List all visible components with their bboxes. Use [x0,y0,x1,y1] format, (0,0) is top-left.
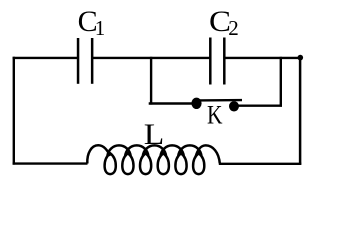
wire: top right segment (C2 to right corner) [224,57,301,59]
svg-text:K: K [207,101,223,130]
capacitor C1 [78,38,92,84]
inductor L coil: loop 6 [193,153,204,174]
inductor L coil: loop 2 [122,153,133,174]
inductor L coil: loop 5 [175,153,186,174]
switch K lever blade [197,99,242,102]
inductor L coil: loop 3 [140,153,151,174]
svg-text:1: 1 [95,16,106,40]
wire: switch left horizontal lead [149,102,196,104]
inductor L coil: loop 1 [105,153,116,174]
wire: bottom left segment (left side to L) [13,162,88,164]
wire: left vertical side [13,57,15,165]
capacitor C2 [210,38,224,85]
inductor L coil: bridge arc 3-4 [143,145,166,156]
wire: top left segment (left side to C1) [13,57,79,59]
inductor L coil: bridge arc 4-5 [161,145,184,156]
node: top right corner junction dot [298,55,304,61]
inductor L coil: bridge arc 2-3 [125,145,148,156]
wire: top middle segment (C1 to C2) [92,57,210,59]
inductor L coil: entry arc [87,145,110,163]
inductor L coil: bridge arc 5-6 [178,145,201,156]
svg-text:2: 2 [228,16,239,40]
svg-text:L: L [144,118,165,151]
inductor L coil: exit arc [196,145,220,163]
wire: switch branch left vertical drop [150,57,152,105]
wire: switch branch right vertical drop [280,57,282,107]
switch K left contact dot [191,98,201,109]
wire: switch right horizontal lead [234,104,282,106]
inductor L coil: bridge arc 1-2 [107,145,130,156]
wire: bottom right segment (L to right side) [219,163,301,165]
inductor L coil: loop 4 [158,153,169,174]
switch K right contact dot [229,101,239,111]
wire: right vertical side [299,57,302,165]
